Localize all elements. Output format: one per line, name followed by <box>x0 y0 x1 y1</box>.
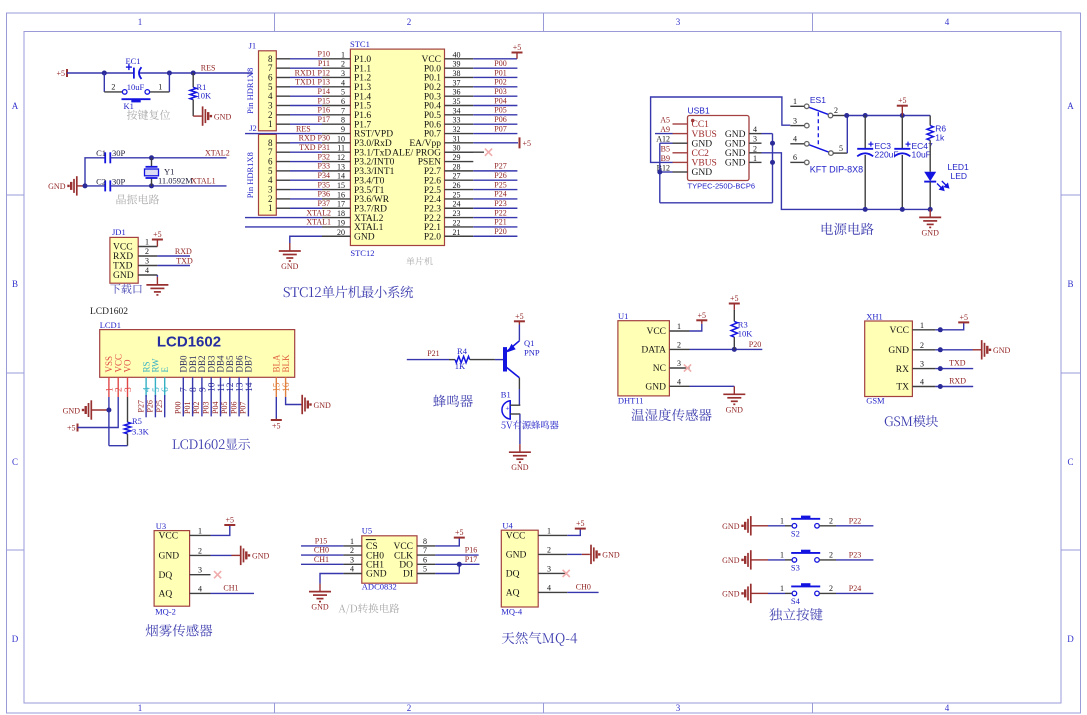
switch S2 + net P22 <box>722 516 873 539</box>
LCD1 pin names (rotated) <box>104 354 291 373</box>
svg-text:28: 28 <box>453 162 461 171</box>
svg-text:GND: GND <box>159 552 180 562</box>
wire switch output +5 rail <box>847 116 931 154</box>
junction <box>102 71 107 76</box>
svg-text:3: 3 <box>793 116 797 125</box>
connector JD1 <box>110 227 138 283</box>
svg-text:LED: LED <box>951 171 968 181</box>
svg-text:2: 2 <box>829 551 833 560</box>
svg-text:10uF: 10uF <box>912 149 931 159</box>
svg-text:16: 16 <box>282 382 292 392</box>
power +5 (JD1) <box>152 230 163 247</box>
svg-text:TYPEC-250D-BCP6: TYPEC-250D-BCP6 <box>688 182 756 191</box>
svg-text:LCD1602: LCD1602 <box>157 334 221 351</box>
power +5 (buzzer) <box>514 312 525 341</box>
svg-text:D: D <box>12 634 19 644</box>
ground GND (STC1) <box>279 243 301 271</box>
wires J2 to STC1 <box>290 143 322 208</box>
svg-text:RXD1 P12: RXD1 P12 <box>295 68 330 77</box>
svg-text:B9: B9 <box>661 154 670 163</box>
LCD1 pin numbers (rotated) <box>105 382 292 392</box>
svg-text:11: 11 <box>337 144 345 153</box>
junction <box>732 347 737 352</box>
svg-text:+5: +5 <box>56 69 65 78</box>
svg-text:40: 40 <box>453 50 461 59</box>
svg-text:P33: P33 <box>318 162 330 171</box>
power +5 (U5 VCC) <box>435 528 464 546</box>
svg-text:+5: +5 <box>698 311 707 320</box>
wire P15 + label <box>301 537 343 546</box>
svg-text:21: 21 <box>453 228 461 237</box>
svg-text:GND: GND <box>725 149 746 159</box>
junction <box>863 113 868 118</box>
svg-text:A9: A9 <box>660 125 670 134</box>
svg-text:XTAL2: XTAL2 <box>205 149 230 158</box>
svg-text:GND: GND <box>692 168 713 178</box>
svg-text:4: 4 <box>945 17 950 27</box>
svg-text:STC12: STC12 <box>350 248 374 258</box>
IC U4 MQ-4 <box>501 521 538 617</box>
header J2 Pin HDR1X8 <box>245 123 276 215</box>
svg-text:DHT11: DHT11 <box>618 396 644 406</box>
svg-text:RXD P30: RXD P30 <box>299 134 330 143</box>
wire RES net <box>245 133 322 135</box>
svg-text:P32: P32 <box>318 152 330 161</box>
title 蜂鸣器 <box>433 395 473 408</box>
svg-text:10K: 10K <box>738 329 754 339</box>
svg-text:24: 24 <box>453 200 461 209</box>
svg-text:GND: GND <box>722 556 740 565</box>
ground GND (U3) <box>211 546 270 565</box>
svg-text:P35: P35 <box>318 180 330 189</box>
svg-text:11.0592M: 11.0592M <box>158 176 193 186</box>
svg-text:P23: P23 <box>849 551 861 560</box>
svg-text:TXD: TXD <box>176 257 193 266</box>
svg-text:18: 18 <box>337 209 345 218</box>
STC1 right pin stubs + numbers <box>445 50 474 236</box>
svg-text:10uF: 10uF <box>127 82 145 92</box>
U4 pin names <box>506 532 527 599</box>
svg-text:4: 4 <box>547 583 551 592</box>
STC1 right pin names <box>392 55 441 242</box>
svg-text:1: 1 <box>780 584 784 593</box>
svg-text:4: 4 <box>753 125 757 134</box>
svg-text:C: C <box>12 457 18 467</box>
wire DI tie <box>435 564 459 573</box>
svg-text:+5: +5 <box>898 96 907 105</box>
svg-text:NC: NC <box>653 364 666 374</box>
svg-text:30: 30 <box>453 144 461 153</box>
svg-text:P14: P14 <box>318 87 330 96</box>
net label XTAL2 <box>306 208 331 217</box>
net label XTAL1 <box>191 177 216 186</box>
net label RES <box>201 64 216 73</box>
svg-text:TXD: TXD <box>949 359 966 368</box>
svg-text:RX: RX <box>896 365 909 375</box>
U3 pin stubs + numbers <box>190 526 211 593</box>
svg-text:1: 1 <box>677 322 681 331</box>
wire VSS-R5 bottom <box>109 445 128 447</box>
junction <box>167 71 172 76</box>
svg-text:10K: 10K <box>197 90 213 100</box>
svg-text:VO: VO <box>123 359 133 372</box>
svg-text:AQ: AQ <box>506 589 520 599</box>
wire GND (U1) <box>690 385 735 387</box>
svg-text:P2.0: P2.0 <box>424 232 441 242</box>
svg-text:+5: +5 <box>67 424 76 433</box>
svg-text:29: 29 <box>453 153 461 162</box>
title 天然气MQ-4 <box>502 632 577 646</box>
svg-text:8: 8 <box>423 537 427 546</box>
svg-text:15: 15 <box>337 181 345 190</box>
svg-text:22: 22 <box>453 218 461 227</box>
net labels P3x <box>299 134 330 208</box>
svg-text:1: 1 <box>138 17 143 27</box>
svg-text:GND: GND <box>645 383 666 393</box>
net label RES <box>296 124 311 133</box>
junction <box>83 183 88 188</box>
ground GND (reset) <box>193 106 231 125</box>
svg-text:C: C <box>1067 457 1073 467</box>
svg-text:A5: A5 <box>660 116 670 125</box>
wire XTAL2 to pin18 <box>245 217 322 219</box>
svg-text:+5: +5 <box>272 422 281 431</box>
title GSM模块 <box>885 415 938 427</box>
svg-text:P22: P22 <box>494 208 506 217</box>
JD1 pins 1-4 <box>138 238 157 276</box>
power +5 (reset) <box>56 69 67 78</box>
svg-text:P24: P24 <box>849 584 861 593</box>
title 烟雾传感器 <box>146 624 213 637</box>
svg-text:3: 3 <box>547 564 551 573</box>
svg-text:GND: GND <box>725 139 746 149</box>
junction <box>149 155 154 160</box>
net label RXD <box>949 377 966 386</box>
title 温湿度传感器 <box>632 409 712 422</box>
no-connect X (U4 DQ) <box>563 570 570 577</box>
title 独立按键 <box>769 608 822 621</box>
ground GND (U5) <box>309 584 331 612</box>
resistor R1 <box>190 73 212 116</box>
net label RXD <box>175 247 192 256</box>
power +5 (LCD) <box>67 424 78 433</box>
IC LCD1 LCD1602 <box>100 320 295 377</box>
svg-text:6: 6 <box>793 153 797 162</box>
svg-text:14: 14 <box>245 382 255 392</box>
U3 pin names <box>159 532 180 600</box>
junction <box>938 366 943 371</box>
svg-text:8: 8 <box>341 116 345 125</box>
label 晶振电路 <box>117 194 160 204</box>
USB1 right pin stubs + numbers <box>749 125 762 163</box>
svg-text:4: 4 <box>198 584 202 593</box>
switch S4 + net P24 <box>722 583 873 606</box>
power +5 (XH1) <box>935 313 969 330</box>
svg-text:P04: P04 <box>494 96 506 105</box>
svg-text:A12: A12 <box>656 135 670 144</box>
junction <box>928 207 933 212</box>
svg-text:2: 2 <box>753 144 757 153</box>
svg-text:1: 1 <box>753 154 757 163</box>
ground GND (power) <box>919 209 941 237</box>
resistor R5 <box>124 397 149 446</box>
IC U5 ADC0832 <box>362 526 417 592</box>
wire TXD <box>935 368 973 370</box>
svg-text:P03: P03 <box>202 402 211 414</box>
svg-text:+5: +5 <box>523 139 532 148</box>
svg-text:1: 1 <box>350 537 354 546</box>
svg-text:+5: +5 <box>730 294 739 303</box>
svg-text:VBUS: VBUS <box>692 130 717 140</box>
svg-text:GND: GND <box>366 570 387 580</box>
junction <box>900 113 905 118</box>
svg-text:LCD1: LCD1 <box>100 320 121 330</box>
svg-text:3: 3 <box>198 566 202 575</box>
svg-text:P07: P07 <box>239 402 248 414</box>
svg-text:2: 2 <box>834 106 838 115</box>
svg-text:USB1: USB1 <box>688 106 710 116</box>
svg-text:E: E <box>160 367 170 373</box>
wire DATA / net P20 <box>690 348 763 350</box>
STC1 left pin stubs + numbers <box>322 50 350 236</box>
junction <box>191 71 196 76</box>
wire VSS to gnd <box>108 397 110 446</box>
svg-text:U4: U4 <box>502 521 513 531</box>
wires + net labels P00-P07 <box>174 397 249 416</box>
svg-text:+5: +5 <box>226 516 235 525</box>
label LCD1602 (header) <box>90 307 128 317</box>
power +5 (VCC pin40) <box>473 43 522 59</box>
net label CH1 <box>223 584 238 593</box>
svg-text:P03: P03 <box>494 87 506 96</box>
U5 right pin stubs + numbers <box>417 537 435 574</box>
USB1 left pin stubs + designators <box>656 116 687 173</box>
svg-text:P01: P01 <box>494 68 506 77</box>
wire P17 + label <box>435 555 479 564</box>
svg-text:220uF: 220uF <box>875 149 899 159</box>
svg-text:S3: S3 <box>791 563 800 573</box>
svg-text:2: 2 <box>829 517 833 526</box>
svg-text:3: 3 <box>676 17 681 27</box>
U1 pin stubs + numbers <box>669 322 689 386</box>
svg-text:P17: P17 <box>465 555 477 564</box>
junction <box>770 141 775 146</box>
svg-text:VCC: VCC <box>113 243 133 253</box>
svg-text:S4: S4 <box>791 596 801 606</box>
connector XH1 GSM <box>865 311 913 405</box>
svg-text:CH0: CH0 <box>314 546 329 555</box>
junction <box>938 384 943 389</box>
svg-text:A: A <box>12 101 19 111</box>
power +5 (rail) <box>897 96 908 115</box>
svg-text:P05: P05 <box>494 106 506 115</box>
svg-text:1K: 1K <box>455 361 466 371</box>
JD1 pin names <box>113 243 134 282</box>
svg-text:XTAL2: XTAL2 <box>306 208 331 217</box>
svg-text:R4: R4 <box>457 346 468 356</box>
svg-text:P23: P23 <box>494 199 506 208</box>
power +5 (U1 VCC) <box>690 311 708 331</box>
svg-text:LCD1602: LCD1602 <box>90 307 128 317</box>
title LCD1602显示 <box>172 438 250 450</box>
power +5 (U4) <box>567 519 586 535</box>
svg-text:Q1: Q1 <box>524 338 534 348</box>
net labels P2x + wires <box>473 162 517 237</box>
svg-text:RXD: RXD <box>949 377 966 386</box>
svg-text:3.3K: 3.3K <box>132 427 150 437</box>
svg-text:C2: C2 <box>96 176 106 186</box>
svg-text:2: 2 <box>407 703 412 713</box>
svg-text:1: 1 <box>920 321 924 330</box>
ground GND (crystal) <box>48 176 85 195</box>
U1 pin names <box>641 327 666 392</box>
header J1 Pin HDR1X8 <box>245 41 276 131</box>
net labels P1x <box>295 50 330 124</box>
svg-text:Pin HDR1X8: Pin HDR1X8 <box>245 68 255 114</box>
svg-text:39: 39 <box>453 60 461 69</box>
svg-text:U5: U5 <box>362 526 372 536</box>
svg-text:JD1: JD1 <box>112 227 126 237</box>
ground GND (BLK) <box>286 395 331 414</box>
label 单片机 <box>406 257 432 265</box>
svg-text:P00: P00 <box>174 402 183 414</box>
U4 pin stubs + numbers <box>538 526 567 592</box>
svg-text:4: 4 <box>945 703 950 713</box>
svg-text:+5: +5 <box>515 312 524 321</box>
svg-text:P21: P21 <box>427 349 439 358</box>
wire VBUS loop to switch <box>651 97 791 162</box>
ground GND (LCD left) <box>63 400 109 419</box>
svg-text:23: 23 <box>453 209 461 218</box>
ground (JD1) <box>146 275 168 295</box>
title 电源电路 <box>822 223 874 236</box>
svg-text:U3: U3 <box>156 521 166 531</box>
svg-text:AQ: AQ <box>159 590 173 600</box>
svg-text:1: 1 <box>793 97 797 106</box>
wire VBUS stub (A9) <box>655 133 673 135</box>
svg-text:33: 33 <box>453 116 461 125</box>
svg-text:DQ: DQ <box>159 571 173 581</box>
svg-text:P34: P34 <box>318 171 330 180</box>
junction <box>149 183 154 188</box>
svg-text:XH1: XH1 <box>866 311 883 321</box>
net label TXD <box>949 359 966 368</box>
IC USB1 TYPEC-250D-BCP6 <box>688 106 756 191</box>
LED LED1 <box>924 162 969 210</box>
svg-text:VCC: VCC <box>646 327 666 337</box>
junction <box>938 347 943 352</box>
svg-text:2: 2 <box>920 341 924 350</box>
svg-text:GND: GND <box>252 552 270 561</box>
svg-text:TXD1 P13: TXD1 P13 <box>295 78 330 87</box>
svg-text:GND: GND <box>354 232 375 242</box>
wires + net labels P27 P26 P25 <box>136 395 164 417</box>
svg-text:1: 1 <box>268 119 273 129</box>
svg-text:GND: GND <box>314 401 332 410</box>
svg-text:GND: GND <box>993 346 1011 355</box>
wire P16 + label <box>435 546 478 555</box>
junction <box>863 207 868 212</box>
wire CH1 + label <box>301 555 343 564</box>
wire pin2 GND to ground rail <box>762 153 931 210</box>
buzzer B1 <box>501 390 521 420</box>
USB1 right pin names GND x4 <box>725 130 746 169</box>
svg-text:26: 26 <box>453 181 461 190</box>
no-connect X (NC) <box>684 364 691 371</box>
svg-text:CC1: CC1 <box>692 120 710 130</box>
svg-text:3: 3 <box>124 387 134 392</box>
junction <box>457 562 462 567</box>
junction <box>844 113 849 118</box>
svg-text:P27: P27 <box>494 162 506 171</box>
svg-text:P27: P27 <box>136 400 145 412</box>
svg-text:P10: P10 <box>318 50 330 59</box>
net label P21 <box>427 349 439 358</box>
ground GND (U4) <box>567 545 620 564</box>
svg-text:30P: 30P <box>112 148 126 158</box>
wire VCC to +5 <box>78 397 119 428</box>
svg-text:38: 38 <box>453 69 461 78</box>
svg-text:B: B <box>12 279 18 289</box>
svg-text:VCC: VCC <box>159 532 179 542</box>
svg-text:27: 27 <box>453 172 461 181</box>
svg-text:P01: P01 <box>183 402 192 414</box>
wire GND pin20 <box>290 236 322 243</box>
svg-text:3: 3 <box>920 360 924 369</box>
IC STC1 (STC12 MCU) <box>350 39 445 258</box>
svg-text:4: 4 <box>793 135 797 144</box>
svg-text:J2: J2 <box>249 123 257 133</box>
svg-text:P22: P22 <box>849 516 861 525</box>
svg-text:1k: 1k <box>935 133 945 143</box>
STC1 left pin names <box>354 55 395 242</box>
svg-text:GND: GND <box>722 522 740 531</box>
junction <box>106 408 111 413</box>
svg-text:CH0: CH0 <box>576 583 591 592</box>
svg-text:TXD P31: TXD P31 <box>299 143 330 152</box>
svg-text:4: 4 <box>350 565 354 574</box>
svg-text:VCC: VCC <box>506 532 526 542</box>
power +5 (BLA) <box>271 397 282 431</box>
svg-text:C1: C1 <box>96 148 106 158</box>
svg-text:6: 6 <box>161 387 171 392</box>
svg-text:2: 2 <box>341 60 345 69</box>
svg-text:P11: P11 <box>318 59 330 68</box>
svg-text:STC1: STC1 <box>350 39 370 49</box>
wire CH1 <box>211 592 255 594</box>
svg-text:3: 3 <box>677 359 681 368</box>
svg-text:GND: GND <box>511 463 529 472</box>
svg-text:2: 2 <box>198 546 202 555</box>
svg-text:2: 2 <box>829 584 833 593</box>
svg-text:GND: GND <box>692 139 713 149</box>
wire buzzer to gnd <box>519 414 521 444</box>
svg-text:30P: 30P <box>112 176 126 186</box>
svg-text:2: 2 <box>407 17 412 27</box>
net label XTAL2 <box>205 149 230 158</box>
no-connect X pin30 <box>445 149 493 156</box>
svg-text:P20: P20 <box>749 340 761 349</box>
svg-text:VBUS: VBUS <box>692 159 717 169</box>
svg-text:P25: P25 <box>155 400 164 412</box>
capacitor C2 <box>96 176 125 191</box>
svg-text:GSM: GSM <box>866 395 885 405</box>
svg-text:P26: P26 <box>494 171 506 180</box>
wire CH0 + label <box>301 546 343 555</box>
svg-text:GND: GND <box>725 159 746 169</box>
resistor R6 <box>927 116 946 172</box>
svg-text:GND: GND <box>602 551 620 560</box>
